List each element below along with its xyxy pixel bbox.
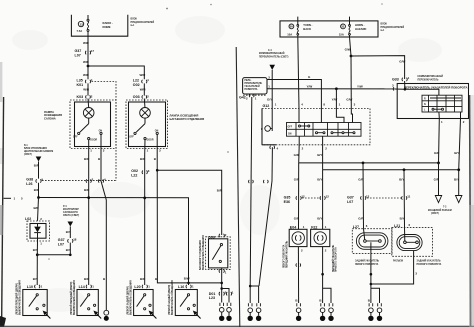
G12 pin 4 stub (270, 146, 275, 149)
dome light bulb (83, 108, 94, 119)
svg-text:L02: L02 (25, 217, 31, 221)
svg-text:(ЛЕВОЙ ЗАДНЕЙ ДВЕРИ): (ЛЕВОЙ ЗАДНЕЙ ДВЕРИ) (126, 286, 129, 315)
svg-text:DOOR: DOOR (90, 140, 97, 142)
svg-text:B/Y: B/Y (33, 248, 38, 252)
wire into dome lamp (87, 99, 90, 109)
trunk light unit dashed housing (126, 100, 168, 149)
svg-text:B/R: B/R (140, 277, 146, 281)
wire junction to L10 (36, 255, 38, 285)
svg-text:G12: G12 (263, 104, 270, 108)
svg-text:ЛЕВОГО ПОВОРОТА: ЛЕВОГО ПОВОРОТА (283, 244, 286, 268)
svg-text:ВЫКЛЮЧАТЕЛЬ ОСВЕЩЕНИЯ: ВЫКЛЮЧАТЕЛЬ ОСВЕЩЕНИЯ (171, 280, 174, 315)
svg-text:TURN -: TURN - (303, 23, 312, 27)
wire L21 feed column (403, 170, 406, 228)
svg-text:HORN -: HORN - (355, 23, 365, 27)
svg-text:B/R: B/R (140, 157, 146, 161)
door switch L16 actuator arrow (195, 313, 200, 319)
svg-text:ПЕРЕКЛЮЧАТЕЛЬ: ПЕРЕКЛЮЧАТЕЛЬ (418, 79, 439, 82)
svg-text:БЛОК: БЛОК (381, 24, 388, 26)
svg-text:B/R: B/R (34, 206, 40, 210)
svg-text:БЛОК: БЛОК (131, 19, 138, 21)
scan left edge smudge (0, 62, 2, 102)
wire K01 to K03 (87, 83, 89, 95)
svg-text:13: 13 (80, 22, 84, 26)
wire G37 pin18 down (69, 243, 71, 255)
wires to eyelets (249, 286, 251, 303)
bus1 left turn G/R (299, 162, 439, 164)
svg-text:18: 18 (73, 238, 77, 242)
wire B/R from B-1 (38, 162, 40, 179)
wire G33 into hazard switch (404, 81, 406, 89)
scan right edge wash (469, 205, 474, 327)
svg-text:ЗАДНИЙ УКАЗАТЕЛЬ: ЗАДНИЙ УКАЗАТЕЛЬ (355, 260, 379, 263)
svg-text:OFF: OFF (73, 136, 78, 138)
trunk switch pin 1 wire (219, 269, 224, 272)
svg-text:B/W: B/W (184, 276, 190, 280)
dashed connector link (302, 197, 321, 199)
wire dome pin3 to ground column (101, 155, 106, 310)
svg-text:W/R: W/R (140, 88, 147, 92)
node L16 tie (187, 282, 190, 285)
node bus2 dots (403, 168, 406, 171)
P-4 source arrow (68, 222, 74, 227)
svg-text:B/Y: B/Y (66, 230, 71, 234)
node junction W/R (87, 65, 90, 68)
wire dome pin1 column down (88, 155, 90, 285)
svg-text:K01: K01 (77, 83, 84, 87)
svg-text:B/R: B/R (217, 189, 223, 193)
G12 output stubs (298, 136, 300, 145)
wire hazard pin1 to bus1 (438, 119, 441, 163)
wire flasher G out (267, 80, 321, 109)
svg-text:ПРЕРЫВАТЕЛЬ: ПРЕРЫВАТЕЛЬ (244, 82, 262, 85)
node B/R junction (37, 196, 40, 199)
hazard feed source arrow (269, 65, 275, 70)
wire into trunk lamp (143, 99, 146, 109)
svg-text:11: 11 (407, 195, 410, 199)
svg-text:Y/W: Y/W (307, 84, 313, 88)
svg-text:ON: ON (99, 131, 103, 133)
svg-text:HAZARD: HAZARD (355, 27, 366, 31)
B/R bus wire across to L16 drop (39, 198, 189, 283)
svg-text:15A: 15A (339, 32, 344, 36)
svg-text:B/Y: B/Y (66, 248, 71, 252)
node bus1 dots (362, 162, 365, 165)
svg-text:ЛАМПА: ЛАМПА (44, 110, 54, 114)
svg-text:17: 17 (91, 49, 95, 53)
wire trunk pin3 column down (157, 155, 222, 283)
wire G/W main to G12 (350, 56, 352, 109)
ground G201 eyelet pair (248, 303, 252, 306)
svg-text:10A: 10A (287, 32, 292, 36)
wire dome feed (87, 66, 89, 79)
node ground pair tie (249, 285, 252, 288)
svg-text:ЛЕВОГО ПОВОРОТА: ЛЕВОГО ПОВОРОТА (355, 263, 379, 266)
fuse box (radio-dome) outline (71, 15, 127, 36)
svg-text:ОСВЕЩЕНИЯ: ОСВЕЩЕНИЯ (44, 113, 62, 117)
svg-text:ПРАВОГО ПОВОРОТА: ПРАВОГО ПОВОРОТА (417, 263, 442, 266)
svg-text:G/W: G/W (399, 60, 405, 64)
wire L21 ground to L27 tie (371, 251, 414, 284)
svg-text:L16: L16 (178, 285, 184, 289)
svg-text:OFF: OFF (288, 127, 293, 129)
wire G/W branch to G33 (351, 56, 405, 79)
svg-text:КОНТРОЛЛЕР: КОНТРОЛЛЕР (63, 209, 79, 211)
hazard switch output stubs (438, 112, 440, 119)
fuse 13 element (87, 15, 89, 19)
node G/W tee (350, 55, 353, 58)
node pin3 branch to trunk switch (156, 169, 159, 172)
svg-text:12: 12 (326, 195, 330, 199)
svg-text:ON: ON (155, 131, 159, 133)
ground G203 eyelet pair (321, 303, 325, 306)
dashed case wire from K01 (42, 82, 116, 181)
trunk light switch (144, 118, 146, 124)
svg-text:БЛОК УПРАВЛЕНИЯ: БЛОК УПРАВЛЕНИЯ (24, 147, 47, 150)
svg-text:B/R: B/R (84, 157, 90, 161)
svg-text:G/R: G/R (434, 178, 440, 182)
svg-text:ЗАДНИЙ УКАЗАТЕЛЬ: ЗАДНИЙ УКАЗАТЕЛЬ (417, 260, 441, 263)
dome light switch (88, 118, 90, 124)
wire hazard feed to G12 (271, 70, 273, 109)
stray specks (166, 8, 168, 10)
svg-text:30: 30 (290, 25, 294, 29)
wire trunk pin1 column down (144, 155, 146, 285)
door switch L14 actuator arrow (96, 313, 101, 319)
fuse box (turn-horn) outline (280, 21, 378, 37)
svg-text:КОМБИНИРОВАННЫЙ: КОМБИНИРОВАННЫЙ (418, 75, 444, 78)
svg-text:B/Y: B/Y (33, 277, 38, 281)
fuse turn-back circled number (289, 24, 294, 29)
dome pin 3 wire (100, 135, 102, 156)
svg-text:G/W: G/W (345, 48, 351, 52)
svg-text:ВЫКЛЮЧАТЕЛЬ ОСВЕЩЕНИЯ: ВЫКЛЮЧАТЕЛЬ ОСВЕЩЕНИЯ (129, 280, 132, 315)
svg-text:L20: L20 (134, 285, 140, 289)
svg-text:K03: K03 (77, 95, 84, 99)
dome light unit dashed housing (70, 100, 116, 149)
wire turn fuse to G12 (298, 37, 299, 109)
svg-text:ON: ON (288, 133, 292, 135)
off-page arrow B/Y (456, 196, 462, 203)
page divider line (236, 47, 240, 327)
inline connector ticks on ground pair (249, 180, 254, 183)
scan bottom-left corner blob (0, 316, 6, 327)
svg-text:(ЛЕВОЙ ПЕРЕДНЕЙ ДВЕРИ): (ЛЕВОЙ ПЕРЕДНЕЙ ДВЕРИ) (16, 283, 19, 315)
svg-text:ПЕРЕДНИЙ УКАЗАТЕЛЬ: ПЕРЕДНИЙ УКАЗАТЕЛЬ (332, 244, 335, 272)
svg-text:L10: L10 (27, 285, 33, 289)
G42 connector dotted (243, 94, 267, 96)
svg-text:G42: G42 (239, 96, 246, 100)
svg-text:RADIO ·: RADIO · (103, 21, 113, 25)
svg-text:L07: L07 (58, 242, 64, 246)
Y/W pin 3 into hazard switch (392, 87, 395, 90)
door switch L20 actuator arrow (151, 313, 156, 319)
svg-text:ПОВОРОТА: ПОВОРОТА (244, 88, 257, 91)
node P-4 drop tie (69, 254, 72, 257)
wire B/Y from G12 to bus2 (322, 145, 324, 170)
svg-text:L07: L07 (75, 53, 81, 57)
wire W/R fuse to junction (87, 36, 89, 66)
svg-text:РАЗЪЕМ: РАЗЪЕМ (393, 260, 403, 263)
svg-text:B/Y: B/Y (317, 216, 322, 220)
svg-text:O02: O02 (133, 83, 140, 87)
fuse 13 circled number (78, 21, 83, 26)
svg-text:7.5A: 7.5A (77, 29, 83, 33)
node trunk switch ground tie (220, 287, 223, 290)
wire L02 to B/Y junction (36, 241, 38, 255)
wire junction to L02 (38, 198, 39, 221)
wire link to P-4 drop (37, 254, 70, 256)
svg-text:КОМБИНИРОВАННЫЙ: КОМБИНИРОВАННЫЙ (259, 52, 285, 55)
svg-text:B/Y: B/Y (454, 151, 459, 155)
svg-text:W/R: W/R (83, 73, 90, 77)
ground G401 (104, 310, 109, 315)
svg-text:W/R: W/R (83, 41, 90, 45)
svg-text:L26: L26 (26, 182, 32, 186)
svg-text:ВЫКЛЮЧАТЕЛЬ ОСВЕЩЕНИЯ: ВЫКЛЮЧАТЕЛЬ ОСВЕЩЕНИЯ (202, 235, 205, 270)
trunk pin 3 wire (156, 135, 158, 156)
fuse horn-hazard element (349, 17, 351, 25)
svg-text:УКАЗАТЕЛЕЙ: УКАЗАТЕЛЕЙ (244, 85, 260, 88)
svg-text:B/R: B/R (34, 188, 40, 192)
G42 ground wire (250, 97, 252, 286)
svg-text:B/Y: B/Y (400, 216, 405, 220)
svg-text:O03: O03 (133, 95, 140, 99)
wire rear harness G/R off-page (438, 163, 440, 195)
trunk light unit box (129, 102, 166, 147)
svg-text:L07: L07 (347, 200, 353, 204)
svg-text:B/Y: B/Y (317, 153, 322, 157)
svg-text:E36: E36 (284, 200, 290, 204)
node on B/R bus (87, 196, 90, 199)
fuse horn-hazard circled number (341, 24, 346, 29)
wire G38 to junction (38, 183, 40, 198)
wire B/Y from P-4 (69, 227, 71, 239)
wire rear harness B/Y off-page (458, 170, 460, 196)
svg-text:САЛОНА: САЛОНА (44, 117, 56, 121)
svg-text:ПРЕДОХРАНИТЕЛЕЙ: ПРЕДОХРАНИТЕЛЕЙ (381, 26, 405, 29)
svg-text:G/R: G/R (294, 178, 300, 182)
wire G/R from G12 to bus1 (298, 145, 301, 163)
svg-text:F: F (261, 127, 263, 131)
G12 inner contact table (287, 123, 362, 137)
off-page arrow G/R (435, 196, 441, 203)
wire branch to second ground (222, 289, 229, 303)
hazard pilot lamp F (265, 126, 271, 132)
svg-text:L14: L14 (79, 285, 85, 289)
svg-text:G/R: G/R (358, 178, 364, 182)
svg-text:ПЕРЕКЛЮЧАТЕЛЬ (СВЕТ): ПЕРЕКЛЮЧАТЕЛЬ (СВЕТ) (259, 55, 289, 58)
fuse turn-back element (297, 17, 299, 25)
svg-text:РЕЛЕ-: РЕЛЕ- (244, 80, 251, 82)
svg-text:31: 31 (341, 25, 345, 29)
wire L27 ground (370, 253, 372, 303)
svg-text:ЛАМПА ОСВЕЩЕНИЯ: ЛАМПА ОСВЕЩЕНИЯ (170, 114, 199, 118)
B-1 source arrow (36, 157, 42, 162)
svg-text:БАГАЖНОГО ОТДЕЛЕНИЯ: БАГАЖНОГО ОТДЕЛЕНИЯ (199, 240, 202, 270)
wire G/W horn fuse down (350, 37, 352, 56)
svg-text:ВЫКЛЮЧАТЕЛЬ ОСВЕЩЕНИЯ: ВЫКЛЮЧАТЕЛЬ ОСВЕЩЕНИЯ (73, 280, 76, 315)
svg-text:G/Y: G/Y (267, 98, 272, 102)
svg-text:L23: L23 (209, 296, 215, 300)
svg-text:Y/W: Y/W (332, 98, 338, 102)
svg-text:G/R: G/R (294, 216, 300, 220)
dome pin 1 wire (88, 140, 90, 155)
svg-text:G/R: G/R (358, 216, 364, 220)
node trunk switch drain on B bus (220, 282, 223, 285)
svg-text:БАГАЖНОГО ОТДЕЛЕНИЯ: БАГАЖНОГО ОТДЕЛЕНИЯ (170, 117, 205, 121)
G12 internal stubs (298, 109, 300, 123)
wire E04 ground (297, 247, 299, 303)
svg-text:B/Y: B/Y (317, 178, 322, 182)
hazard switch table (422, 95, 462, 112)
svg-text:G/R: G/R (294, 153, 300, 157)
ground G204 eyelet pair (369, 303, 373, 306)
svg-text:B/R: B/R (34, 164, 40, 168)
G12 pin4 ground wire (259, 147, 272, 286)
svg-text:DOME: DOME (103, 25, 111, 29)
wire L27 feed column (362, 163, 365, 229)
svg-text:(СВЕТ): (СВЕТ) (24, 154, 32, 156)
svg-text:OFF: OFF (129, 136, 134, 138)
hazard warning switch box (397, 84, 468, 119)
svg-text:ПРАВОГО ПОВОРОТА: ПРАВОГО ПОВОРОТА (335, 247, 338, 272)
scan bottom edge line (0, 326, 474, 327)
svg-text:B/Y: B/Y (454, 178, 459, 182)
wire flasher Y/W out (267, 88, 395, 90)
node B/Y junction (36, 253, 39, 256)
off-page stub pins (4, 197, 11, 199)
trunk light bulb (140, 108, 151, 119)
svg-text:Y/W: Y/W (357, 84, 363, 88)
node on B/R bus at L20 column (143, 197, 146, 200)
svg-text:КОНЦЕВОЙ РАЗЪЕМ: КОНЦЕВОЙ РАЗЪЕМ (428, 209, 452, 212)
svg-text:W/R: W/R (140, 73, 147, 77)
node hazard feed join (404, 88, 407, 91)
dome light unit box (75, 102, 111, 147)
wire F22 column (322, 170, 324, 230)
wire hazard pin2 to bus2 (459, 119, 461, 170)
wire F22 ground split (322, 247, 324, 303)
svg-text:G/W: G/W (346, 98, 352, 102)
node L21 ground tie (370, 283, 373, 286)
wire branch to trunk lamp (88, 66, 144, 79)
trunk pin 1 wire (144, 140, 146, 155)
svg-text:(ПРАВОЙ ПЕРЕДНЕЙ ДВЕРИ): (ПРАВОЙ ПЕРЕДНЕЙ ДВЕРИ) (70, 282, 73, 315)
wire O02 to O03 (143, 83, 145, 95)
ground G202 eyelet (297, 303, 301, 306)
svg-text:ВЫКЛЮЧАТЕЛЬ ОСВЕЩЕНИЯ: ВЫКЛЮЧАТЕЛЬ ОСВЕЩЕНИЯ (19, 280, 22, 315)
ground G451 eyelet pair (220, 303, 224, 306)
connector pin 2 inline (86, 179, 91, 182)
wire L16 feed stub (188, 283, 190, 285)
svg-text:(СВЕТ): (СВЕТ) (431, 213, 439, 215)
svg-text:ПЕРЕДНИЙ УКАЗАТЕЛЬ: ПЕРЕДНИЙ УКАЗАТЕЛЬ (285, 240, 288, 268)
svg-text:G/R: G/R (434, 151, 440, 155)
bus2 right turn B/Y (323, 169, 459, 171)
scan right border line (470, 95, 471, 327)
svg-text:DOOR: DOOR (147, 140, 154, 142)
svg-text:B/R: B/R (84, 277, 90, 281)
svg-text:W/R: W/R (83, 60, 90, 64)
door switch L10 actuator arrow (45, 313, 50, 319)
svg-text:G33: G33 (392, 77, 399, 81)
diode symbol (37, 224, 39, 227)
table contacts (299, 125, 301, 127)
turn signal flasher relay G42 (243, 78, 267, 94)
svg-text:B/R: B/R (84, 188, 90, 192)
svg-text:L27: L27 (353, 225, 359, 229)
svg-text:ПРЕДОХРАНИТЕЛЕЙ: ПРЕДОХРАНИТЕЛЕЙ (131, 21, 155, 24)
wire E04 column (298, 163, 300, 229)
svg-text:W/R: W/R (83, 88, 90, 92)
svg-text:B/Y: B/Y (399, 178, 404, 182)
svg-text:L22: L22 (131, 173, 137, 177)
svg-text:(ПРАВОЙ ЗАДНЕЙ ДВЕРИ): (ПРАВОЙ ЗАДНЕЙ ДВЕРИ) (168, 285, 171, 315)
svg-text:САЛОННОГО: САЛОННОГО (63, 211, 78, 214)
svg-text:ЦЕНТРАЛЬНЫМ ЗАМКОМ: ЦЕНТРАЛЬНЫМ ЗАМКОМ (24, 150, 53, 153)
scan left border line (2, 97, 4, 327)
svg-text:СВЕТА (СВЕТ): СВЕТА (СВЕТ) (63, 214, 79, 217)
connector pin 4 inline (98, 179, 103, 182)
svg-text:BACK: BACK (303, 27, 311, 31)
node Y/W branch to G12 (335, 87, 338, 90)
